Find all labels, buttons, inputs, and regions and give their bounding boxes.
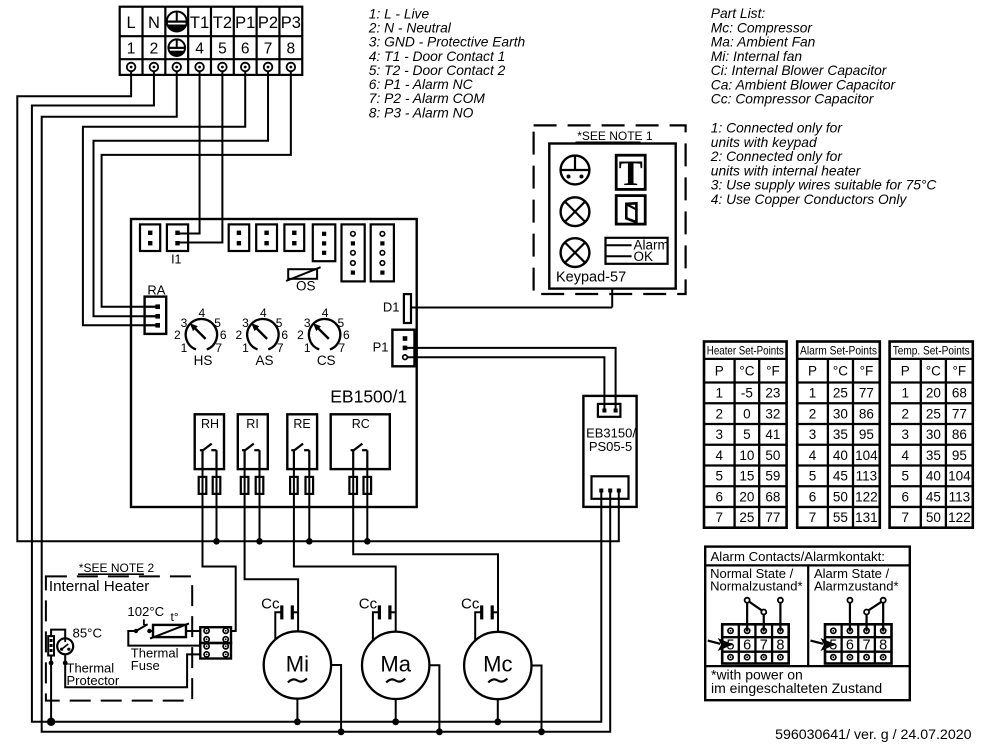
svg-text:P1: P1 [373,340,389,355]
svg-text:5: 5 [743,427,751,442]
svg-text:6: P1 - Alarm NC: 6: P1 - Alarm NC [369,77,474,92]
svg-text:PS05-5: PS05-5 [589,439,632,454]
svg-text:2: 2 [716,406,724,421]
svg-text:95: 95 [859,427,874,442]
svg-text:45: 45 [926,489,941,504]
svg-text:3: 3 [242,316,249,330]
svg-text:im eingeschalteten Zustand: im eingeschalteten Zustand [711,680,882,696]
svg-text:Mc: Mc [483,652,512,677]
svg-text:102°C: 102°C [127,604,164,619]
svg-text:68: 68 [952,386,967,401]
svg-text:1: 1 [716,386,724,401]
svg-text:2: 2 [901,406,909,421]
svg-text:8: 8 [879,637,887,653]
svg-text:5: 5 [716,469,724,484]
svg-text:D1: D1 [383,300,400,315]
svg-text:T: T [619,153,643,193]
svg-text:1: 1 [304,341,311,355]
svg-text:3: 3 [901,427,909,442]
svg-text:4: 4 [195,40,204,57]
svg-text:T2: T2 [213,14,232,32]
svg-text:Cc: Cc [261,596,280,613]
svg-text:HS: HS [194,353,213,368]
svg-text:77: 77 [952,406,967,421]
svg-text:I1: I1 [171,253,181,267]
svg-text:Mc: Compressor: Mc: Compressor [711,20,814,35]
svg-text:41: 41 [765,427,780,442]
svg-text:Cc: Cc [461,596,480,613]
svg-text:2: Connected only for: 2: Connected only for [710,149,844,164]
svg-text:N: N [148,14,160,32]
svg-text:5: 5 [809,469,817,484]
svg-text:3: 3 [304,316,311,330]
svg-text:50: 50 [765,448,780,463]
svg-text:1: Connected only for: 1: Connected only for [711,121,844,136]
svg-text:55: 55 [833,510,848,525]
svg-text:35: 35 [926,448,941,463]
svg-text:50: 50 [833,489,848,504]
svg-text:t°: t° [171,610,179,624]
svg-text:Internal Heater: Internal Heater [49,578,149,595]
svg-text:8: 8 [287,40,296,57]
svg-text:Ma: Ambient Fan: Ma: Ambient Fan [711,35,816,50]
svg-text:25: 25 [833,386,848,401]
svg-text:°F: °F [953,364,967,379]
svg-text:6: 6 [716,489,724,504]
svg-text:4: 4 [716,448,724,463]
svg-text:86: 86 [859,406,874,421]
svg-text:OS: OS [296,279,316,294]
svg-text:0: 0 [743,406,751,421]
svg-text:3: 3 [181,316,188,330]
svg-text:Alarm Set-Points: Alarm Set-Points [800,345,877,358]
svg-text:P: P [901,364,910,379]
svg-text:Alarm Contacts/Alarmkontakt:: Alarm Contacts/Alarmkontakt: [711,549,885,564]
svg-text:6: 6 [809,489,817,504]
svg-text:4: 4 [809,448,817,463]
svg-text:Ma: Ma [380,652,411,677]
svg-text:P: P [808,364,817,379]
svg-text:5: 5 [218,40,227,57]
svg-text:7: P2 - Alarm COM: 7: P2 - Alarm COM [369,91,486,106]
svg-text:°C: °C [926,364,941,379]
svg-text:-5: -5 [741,386,753,401]
svg-text:1: 1 [809,386,817,401]
svg-text:1: 1 [127,40,136,57]
svg-text:Keypad-57: Keypad-57 [556,270,626,286]
svg-text:CS: CS [317,353,336,368]
svg-text:59: 59 [765,469,780,484]
svg-text:Cc: Compressor Capacitor: Cc: Compressor Capacitor [711,92,875,107]
svg-text:15: 15 [739,469,754,484]
svg-text:10: 10 [739,448,754,463]
svg-text:Fuse: Fuse [131,658,160,673]
svg-text:7: 7 [264,40,273,57]
svg-text:OK: OK [634,249,654,264]
svg-text:6: 6 [241,40,250,57]
svg-text:7: 7 [277,341,284,355]
svg-text:3: GND - Protective Earth: 3: GND - Protective Earth [369,35,526,50]
svg-text:4: 4 [901,448,909,463]
svg-text:25: 25 [926,406,941,421]
svg-text:RA: RA [147,283,165,298]
svg-text:6: 6 [901,489,909,504]
svg-text:EB1500/1: EB1500/1 [330,387,407,407]
svg-text:4: 4 [199,306,206,320]
svg-text:*SEE NOTE 1: *SEE NOTE 1 [577,129,653,143]
svg-text:°C: °C [833,364,848,379]
svg-text:2: 2 [809,406,817,421]
svg-text:5: T2 - Door Contact 2: 5: T2 - Door Contact 2 [369,63,506,78]
svg-text:20: 20 [926,386,941,401]
svg-text:AS: AS [255,353,273,368]
svg-text:40: 40 [926,469,941,484]
svg-text:°F: °F [860,364,874,379]
svg-text:T1: T1 [190,14,209,32]
svg-text:40: 40 [833,448,848,463]
svg-text:4: 4 [260,306,267,320]
svg-text:RE: RE [293,417,310,431]
svg-text:30: 30 [926,427,941,442]
svg-text:Protector: Protector [67,673,120,688]
svg-text:2: N - Neutral: 2: N - Neutral [368,20,452,35]
svg-text:units with internal heater: units with internal heater [711,163,862,178]
svg-text:1: L - Live: 1: L - Live [369,6,430,21]
svg-text:7: 7 [809,510,817,525]
svg-text:7: 7 [339,341,346,355]
svg-text:86: 86 [952,427,967,442]
svg-text:Ca: Ambient Blower Capacitor: Ca: Ambient Blower Capacitor [711,77,897,92]
svg-text:P1: P1 [235,14,255,32]
svg-text:85°C: 85°C [73,626,103,641]
svg-text:596030641/ ver. g / 24.07.2020: 596030641/ ver. g / 24.07.2020 [775,727,972,743]
svg-text:50: 50 [926,510,941,525]
svg-text:3: 3 [809,427,817,442]
svg-text:3: Use supply wires suitable f: 3: Use supply wires suitable for 75°C [711,178,938,193]
svg-text:77: 77 [765,510,780,525]
svg-text:122: 122 [948,510,971,525]
svg-text:RC: RC [352,417,370,431]
svg-text:32: 32 [765,406,780,421]
svg-text:7: 7 [716,510,724,525]
svg-text:104: 104 [855,448,878,463]
svg-text:P2: P2 [258,14,278,32]
svg-text:8: 8 [776,637,784,653]
svg-text:4: 4 [322,306,329,320]
svg-text:1: 1 [901,386,909,401]
svg-text:P3: P3 [281,14,301,32]
svg-text:RH: RH [201,417,219,431]
svg-text:7: 7 [863,637,871,653]
svg-text:45: 45 [833,469,848,484]
svg-text:3: 3 [716,427,724,442]
svg-text:7: 7 [215,341,222,355]
svg-text:4: T1 - Door Contact 1: 4: T1 - Door Contact 1 [369,49,506,64]
svg-text:23: 23 [765,386,780,401]
svg-text:Alarmzustand*: Alarmzustand* [814,579,899,594]
svg-text:5: 5 [901,469,909,484]
svg-text:6: 6 [846,637,854,653]
svg-text:1: 1 [242,341,249,355]
svg-text:Heater Set-Points: Heater Set-Points [707,345,784,358]
svg-text:Ci: Internal Blower Capacitor: Ci: Internal Blower Capacitor [711,63,888,78]
svg-text:122: 122 [855,489,878,504]
svg-text:Mi: Mi [286,652,309,677]
svg-text:Normalzustand*: Normalzustand* [710,579,803,594]
svg-text:*SEE NOTE 2: *SEE NOTE 2 [79,561,155,575]
svg-text:7: 7 [901,510,909,525]
svg-text:113: 113 [949,489,971,504]
svg-text:4: Use Copper Conductors Only: 4: Use Copper Conductors Only [711,192,908,207]
svg-text:25: 25 [739,510,754,525]
svg-text:113: 113 [856,469,878,484]
svg-text:30: 30 [833,406,848,421]
svg-text:8: P3 - Alarm NO: 8: P3 - Alarm NO [369,105,474,120]
svg-text:20: 20 [739,489,754,504]
svg-text:1: 1 [181,341,188,355]
svg-text:2: 2 [150,40,159,57]
svg-text:°C: °C [739,364,754,379]
svg-text:6: 6 [743,637,751,653]
svg-text:L: L [127,14,136,32]
svg-text:°F: °F [766,364,780,379]
svg-text:P: P [715,364,724,379]
svg-text:Part List:: Part List: [711,6,766,21]
svg-text:Mi: Internal fan: Mi: Internal fan [711,49,803,64]
svg-text:104: 104 [948,469,971,484]
svg-text:77: 77 [859,386,874,401]
svg-text:7: 7 [760,637,768,653]
svg-text:RI: RI [246,417,259,431]
svg-text:68: 68 [765,489,780,504]
svg-text:95: 95 [952,448,967,463]
svg-text:Temp. Set-Points: Temp. Set-Points [893,345,970,358]
svg-text:131: 131 [855,510,878,525]
svg-text:units with keypad: units with keypad [711,135,818,150]
svg-text:Cc: Cc [359,596,378,613]
svg-text:35: 35 [833,427,848,442]
